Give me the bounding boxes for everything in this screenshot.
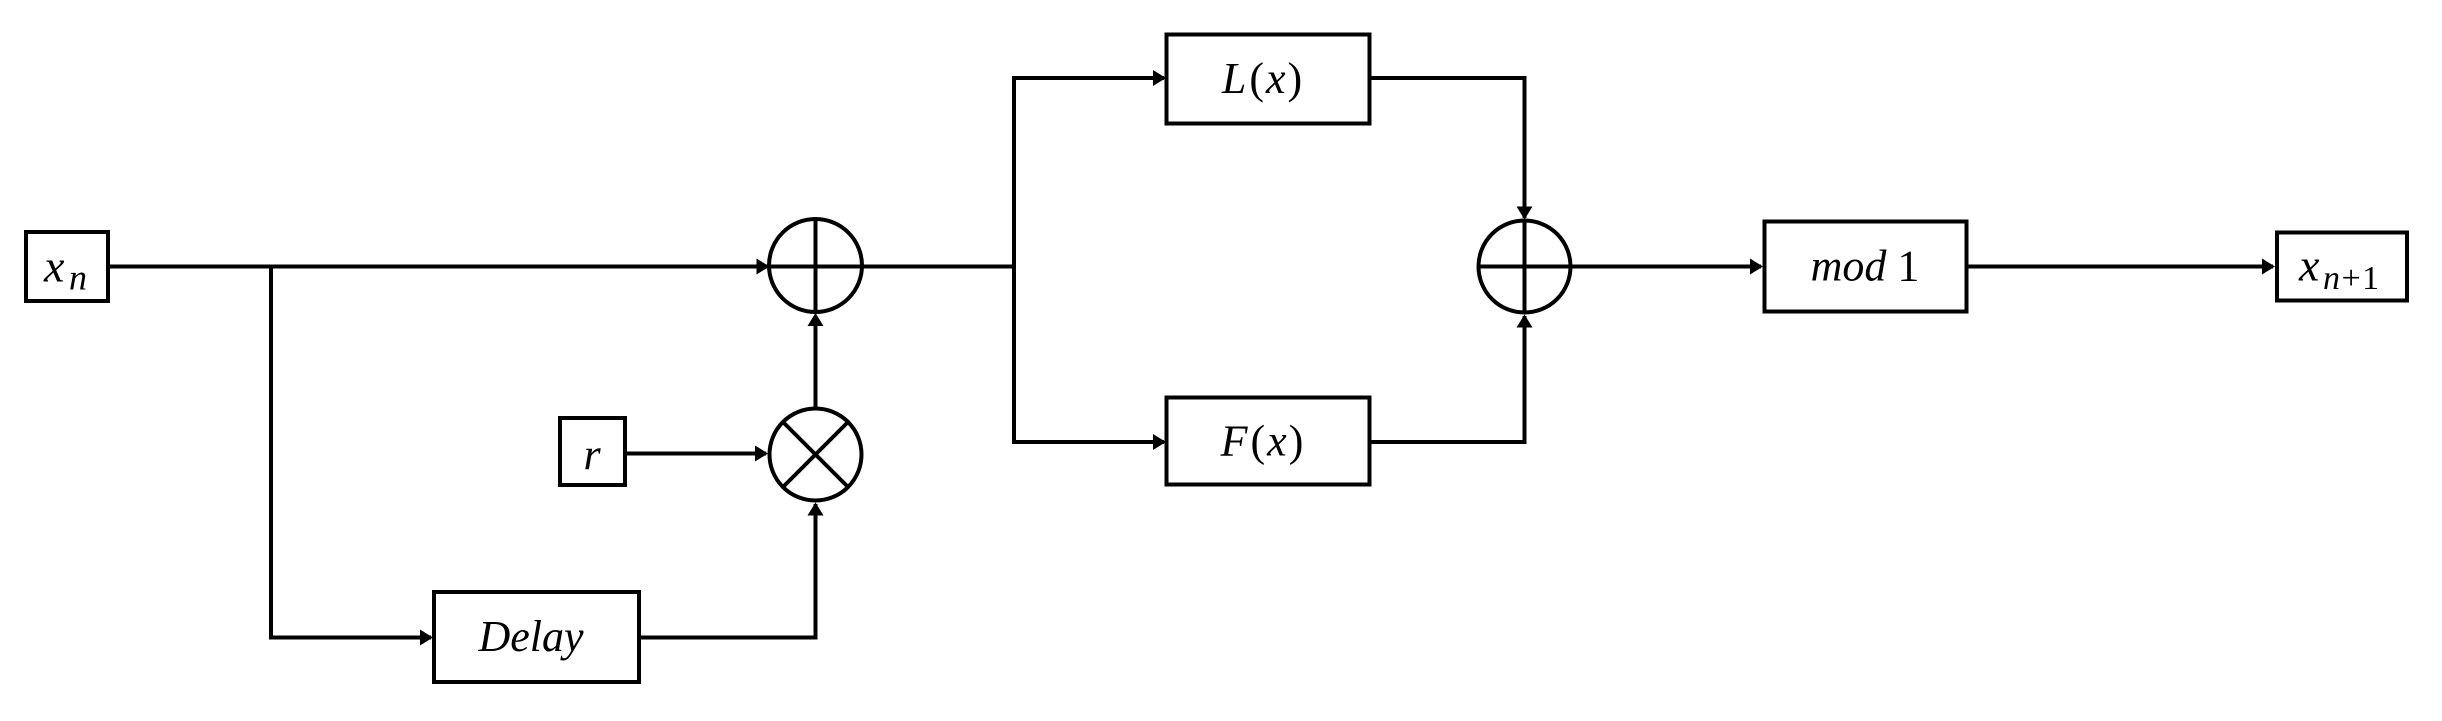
wire: split vertical between L(x) and F(x) paths <box>1014 78 1164 442</box>
wire: adder A2 output to mod 1 box <box>1571 265 1762 269</box>
svg-text:Delay: Delay <box>477 612 584 661</box>
box mod 1 <box>1765 222 1967 312</box>
wire: mod 1 output to x_n+1 box <box>1967 265 2274 269</box>
svg-text:x: x <box>2298 240 2320 291</box>
label mod 1 <box>1811 242 1920 291</box>
adder A1 (circle with plus) <box>769 219 862 312</box>
box L(x) <box>1167 35 1370 124</box>
svg-text:mod 1: mod 1 <box>1811 242 1920 291</box>
multiplier M1 (circle with X) <box>770 409 862 501</box>
box r <box>560 418 625 485</box>
label x_n <box>43 241 87 298</box>
arrowhead into F(x) box <box>1153 434 1166 450</box>
arrowhead into Delay box <box>420 630 433 646</box>
wire: multiplier output up to adder A1 <box>814 316 818 409</box>
wire: Delay output up to multiplier M1 <box>639 504 816 638</box>
box x_n <box>26 232 108 301</box>
box x_n+1 <box>2277 233 2407 301</box>
wire: F(x) output up to adder A2 <box>1369 316 1525 442</box>
label L(x) <box>1221 54 1302 103</box>
label x_n+1 <box>2298 240 2381 298</box>
label Delay <box>477 612 584 661</box>
box Delay <box>434 592 639 682</box>
svg-text:F(x): F(x) <box>1220 417 1304 466</box>
arrowhead into L(x) box <box>1153 70 1166 86</box>
svg-text:r: r <box>583 430 601 479</box>
adder A2 (circle with plus) <box>1479 221 1571 313</box>
svg-text:x: x <box>43 241 65 292</box>
wire: r output to multiplier M1 <box>627 452 766 456</box>
svg-text:n+1: n+1 <box>2323 260 2381 297</box>
wire: branch down from junction to Delay level <box>271 267 431 638</box>
arrowhead into adder A1 bottom <box>808 313 824 326</box>
arrowhead into adder A1 left <box>757 259 770 275</box>
arrowhead into adder A2 top <box>1517 207 1533 220</box>
arrowhead into x_n+1 box <box>2262 259 2275 275</box>
arrowhead into adder A2 bottom <box>1517 315 1533 328</box>
svg-text:n: n <box>69 258 87 298</box>
label r <box>583 430 601 479</box>
arrowhead into mod 1 box <box>1750 259 1763 275</box>
svg-text:L(x): L(x) <box>1221 54 1302 103</box>
wire: x_n output to adder A1 (horizontal main line through A1 to split) <box>110 265 1014 269</box>
arrowhead into multiplier left <box>755 446 768 462</box>
box F(x) <box>1167 398 1370 485</box>
wire: L(x) output down to adder A2 <box>1369 78 1525 218</box>
arrowhead into multiplier bottom <box>808 503 824 516</box>
label F(x) <box>1220 417 1304 466</box>
